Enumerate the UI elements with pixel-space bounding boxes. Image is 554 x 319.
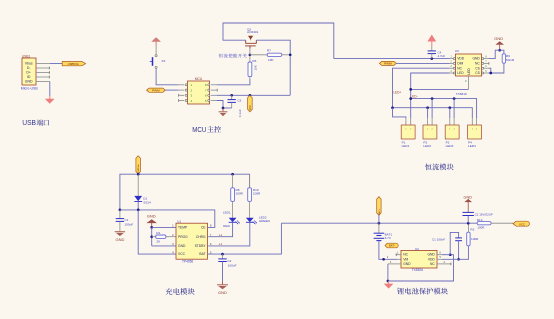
net flag VCC (vertical, MCU pin6) [248,95,253,112]
U3 pin 7 [484,62,489,64]
svg-text:MCU: MCU [195,77,203,81]
wire rail2 5V [120,210,215,228]
wire BAT pin rail [208,223,282,254]
wire NC pin to LED+ rail [393,68,450,108]
svg-text:TEMP: TEMP [178,226,188,230]
svg-text:100R: 100R [477,226,485,230]
wire GND column [151,227,153,246]
svg-text:100uF: 100uF [125,223,134,227]
node C3/R3 tap [467,222,470,225]
U2 right NC stub [437,263,451,265]
svg-text:LED1: LED1 [223,211,231,215]
switch K2 [155,55,157,57]
wire bottom gnd loop [388,255,454,281]
wire LED3 cathode drop [453,99,455,118]
node C4 tap [430,57,433,60]
port BAT+ (vertical) [377,197,381,216]
net label PWM (MCU) [147,88,166,92]
switch K2 lead upper [155,46,157,55]
wire K2 to MCU pin1 [156,68,178,84]
svg-text:C1: C1 [125,218,129,222]
USB pin stub D+ [36,72,50,74]
power port +BAT (above C4, arrow up) [427,35,436,42]
MCU pin 5 [211,100,217,102]
svg-text:100uF: 100uF [228,264,237,268]
svg-text:10K: 10K [254,64,258,70]
svg-text:LED+: LED+ [393,90,401,94]
svg-text:U3: U3 [455,49,459,53]
U3 pin 4 [450,72,453,74]
capacitor C1 (charging) [119,210,121,219]
svg-text:C5: C5 [237,99,241,103]
wire right GND to dot [442,254,450,256]
wire R9 bottom to CS [489,63,504,73]
svg-text:10K: 10K [268,58,274,62]
resistor R7 [250,54,267,56]
svg-text:DIM: DIM [457,62,463,66]
svg-text:100R: 100R [471,237,479,241]
MCU pin 3 [178,94,184,96]
svg-text:GND: GND [403,262,411,266]
svg-text:GND: GND [427,253,435,257]
LED package P4 body [468,125,482,139]
power port +5V (above K2, arrow up) [151,37,161,42]
wire VDD rail [334,58,450,60]
LED package P1 pins [405,118,407,125]
svg-text:MCU: MCU [192,125,206,134]
svg-text:LED4: LED4 [468,144,476,148]
node C3 tap [230,94,233,97]
svg-text:K2: K2 [162,59,166,63]
net label PWM (U3) [379,61,396,65]
protector U2 body [401,250,437,268]
capacitor C2 [222,254,224,259]
node right GND junction [449,253,452,256]
svg-text:PWM: PWM [384,62,392,66]
svg-text:C1 16V/22UF: C1 16V/22UF [475,213,493,217]
wire R3 bottom to VDD [459,246,469,259]
resistor R8 [232,174,234,188]
node TEMP junction [150,226,153,229]
wire LED3 anode drop [449,108,451,118]
LED package P2 pins [427,118,429,125]
wire Q2 drain down [256,40,290,95]
svg-text:VM: VM [403,257,408,261]
capacitor C3 (protection) [463,211,474,213]
wire Q2 source loop to top rail [223,23,334,59]
svg-text:100R: 100R [236,192,244,196]
svg-text:LED: LED [467,68,471,75]
USB pin stub Vbus [36,63,50,65]
svg-text:GREEN: GREEN [259,219,270,223]
node LED2 cathode tap [431,97,434,100]
title 充电模块 [166,288,173,295]
svg-text:TX5306: TX5306 [412,268,423,272]
node C2 tap [221,253,224,256]
U3 pin 6 [484,67,489,69]
wire GND pin to GND port [489,50,500,58]
svg-text:LED1: LED1 [402,144,410,148]
node R1 tap [150,235,153,238]
wire pin9 to LED- rail [411,88,469,90]
wire LED1 cathode to CHRG [209,222,233,236]
port USB5Vin [62,62,85,66]
wire MCU pin5 to ground [217,101,223,109]
U3 pin 2 [450,62,453,64]
svg-text:NC: NC [403,253,408,257]
wire battery minus to VM [379,241,397,260]
svg-text:PROG: PROG [178,235,188,239]
svg-text:SS14: SS14 [143,200,151,204]
U3 pin 1 [450,58,453,60]
svg-text:VCC: VCC [249,105,252,110]
node rail D start [391,106,394,109]
svg-text:GND: GND [472,57,480,61]
svg-text:NC: NC [457,66,462,70]
wire LED pin to LED- column [411,73,450,118]
port USB5Vin (vertical) [136,156,141,174]
wire LED+ rail D [393,108,473,118]
capacitor C1 (protection) [450,232,458,254]
node C1 corner junction [119,209,122,212]
LED package P4 pins [471,118,473,125]
node VDD junction [457,258,460,261]
USB pin stub GND [36,81,50,83]
svg-text:USB: USB [22,118,36,127]
title 锂电池保护模块 [397,288,404,294]
node LED3 cathode tap [453,97,456,100]
U3 pin 3 [450,67,453,69]
node GND junction [498,49,501,52]
svg-text:R6: R6 [252,59,256,63]
svg-text:4.7uF: 4.7uF [438,54,446,58]
svg-text:GND: GND [178,244,186,248]
USB pin stub ID [36,76,50,78]
wire BAT+ flag stem [378,215,380,223]
svg-text:D+: D+ [26,71,31,75]
U2 right VDD stub [437,258,442,260]
MCU pin 6 [211,94,217,96]
svg-text:PWM: PWM [152,88,160,92]
wire GND pin down [387,264,389,281]
wire LED2 cathode to STDBY [209,222,250,246]
svg-text:GND: GND [494,36,503,41]
capacitor C4 [431,46,433,51]
svg-text:NC: NC [430,262,435,266]
wire GND pin row [152,245,176,247]
MCU pin 2 [178,89,184,91]
node rail C start [409,97,412,100]
svg-text:LED3: LED3 [446,144,454,148]
wire MCU pin6 bus [217,94,291,96]
node R8 tap [231,173,234,176]
svg-text:VDD: VDD [428,257,436,261]
wire gate stem [249,48,251,55]
ground (C1) [115,231,125,232]
node R7 right junction [289,53,292,56]
svg-text:TX6810: TX6810 [456,92,467,96]
svg-text:USB5Vin: USB5Vin [138,163,140,173]
wire rail USB5Vin [120,174,250,210]
wire CS pins tie [489,68,491,73]
capacitor C3 [231,95,233,100]
battery BAT1 [378,223,380,233]
ground (C2) [222,281,224,284]
wire LED- rail C [411,99,477,118]
svg-text:CS: CS [475,66,480,70]
svg-text:R7: R7 [267,48,271,52]
svg-text:GND: GND [25,80,33,84]
svg-text:VCC: VCC [178,252,186,256]
U2 right GND stub [437,254,442,256]
LED package P1 body [401,125,415,139]
wire LED2 anode drop [427,108,429,118]
svg-text:NC: NC [475,62,480,66]
title 恒流模块 [425,164,432,171]
svg-text:GND: GND [464,195,473,199]
LED LED2 (green) [246,218,254,222]
svg-text:BAT-: BAT- [389,244,395,248]
wire GND pin down [49,82,51,97]
resistor R1 [152,236,156,238]
svg-text:C2: C2 [227,259,231,263]
U2 pin GND3 stub [388,263,401,265]
node flag/diode tap [137,173,140,176]
wire LED1 anode jog [393,108,406,118]
LED package P3 body [445,125,459,139]
wire PWM to DIM [396,62,450,64]
svg-text:GND: GND [115,237,124,242]
resistor R3 [467,223,469,232]
wire R9 top to GND port [500,50,504,54]
node LED3 anode tap [448,106,451,109]
net label BAT- [385,243,398,248]
U3 pin 8 [484,58,489,60]
node battery tap [378,222,381,225]
node pin5 ground junction [222,107,225,110]
USB connector J-body [22,58,36,85]
svg-text:LED: LED [457,71,464,75]
svg-text:Vbus: Vbus [25,62,33,66]
label 恒流使能开关 [219,54,223,58]
USB pin stub D- [36,67,50,69]
svg-text:VDD: VDD [457,57,465,61]
ground (MCU) [222,108,224,111]
svg-text:R1: R1 [156,231,160,235]
node VM junction [382,258,385,261]
svg-text:BAT+: BAT+ [378,208,381,214]
U3 pin 5 [484,72,489,74]
U2 pin NC stub [396,254,401,256]
svg-text:TP4056: TP4056 [182,260,193,264]
wire C3 bottom link [223,107,232,109]
svg-text:R3: R3 [470,228,474,232]
svg-text:0.1uF: 0.1uF [238,109,242,117]
wire Vbus to port [50,63,62,65]
diode D1 lead [137,174,139,196]
LED package P3 pins [449,118,451,125]
svg-text:STDBY: STDBY [195,244,207,248]
wire MCU pin8 to R6 bottom [217,78,250,85]
svg-text:3.7V: 3.7V [385,236,392,240]
wire battery rail [281,222,477,224]
ground GND (USB, arrow down) [49,96,51,99]
svg-text:R13: R13 [477,218,483,222]
node gate junction [249,53,252,56]
svg-text:LED2: LED2 [423,144,431,148]
wire PWM to MCU pin2 [165,89,178,91]
transistor Q2 [245,40,256,48]
MCU pin 1 [178,84,184,86]
svg-text:AO3401: AO3401 [247,30,259,34]
wire LED2 cathode drop [431,99,433,118]
node bottom gnd junction [387,280,390,283]
svg-text:CS: CS [475,71,480,75]
MCU pin 7 [211,89,218,91]
node VCC flag tap [249,94,252,97]
svg-text:C1 100nF: C1 100nF [432,238,445,242]
node CS junction [489,72,492,75]
LED package P2 body [423,125,437,139]
U3 pin 9 bottom [468,76,470,89]
wire VDD to dot [442,258,459,260]
ground (U2, arrow down) [387,281,389,284]
svg-text:L1: L1 [219,242,223,246]
net label VCC (output) [513,221,529,226]
svg-text:RED: RED [223,224,230,228]
svg-text:GND: GND [218,290,227,295]
diode D1 [134,196,142,201]
charger U1 body [176,223,208,259]
svg-text:VCC: VCC [519,222,526,226]
op-amp U3 body [456,54,482,76]
svg-text:100R: 100R [253,192,261,196]
svg-text:ID: ID [27,75,31,79]
wire TEMP pin [152,226,176,228]
wire R13 to VCC label [491,222,513,224]
svg-text:CE: CE [201,226,206,230]
resistor R10 [249,174,251,188]
node LED2 anode tap [426,106,429,109]
resistor R13 [477,222,491,225]
node LED- rail junction [409,88,412,91]
svg-text:Micro-USB: Micro-USB [21,86,39,90]
MCU pin 4 [178,100,184,102]
resistor R6 [249,55,251,62]
MCU pin 8 [211,84,217,86]
svg-text:50mR: 50mR [506,58,515,62]
wire to VCC pin [138,210,176,254]
svg-text:USB5Vin: USB5Vin [68,62,80,66]
svg-text:CHRG: CHRG [196,235,206,239]
svg-text:BAT: BAT [199,252,205,256]
LED LED1 (red) [229,218,237,222]
svg-text:GND: GND [147,214,156,219]
svg-text:L1: L1 [219,233,223,237]
MCU U-body [188,81,210,104]
resistor R9 [502,54,505,63]
node D1 cathode junction [137,209,140,212]
